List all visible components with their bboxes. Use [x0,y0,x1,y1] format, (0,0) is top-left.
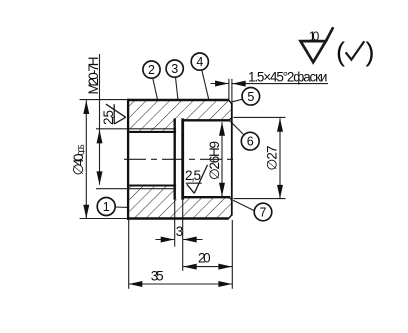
svg-text:4: 4 [196,55,203,69]
svg-text:2,5: 2,5 [101,110,116,125]
svg-text:20: 20 [198,250,211,265]
svg-text:1: 1 [103,200,110,214]
svg-text:M20-7H: M20-7H [86,57,101,95]
svg-text:3: 3 [171,62,178,76]
svg-text:1.5×45°2фаски: 1.5×45°2фаски [248,69,327,84]
svg-text:6: 6 [247,135,254,149]
svg-text:∅27: ∅27 [265,146,280,171]
svg-text:∅26H9: ∅26H9 [207,141,222,180]
svg-text:35: 35 [151,269,164,284]
svg-text:∅40-0,05: ∅40-0,05 [70,144,86,175]
svg-text:2,5: 2,5 [185,168,201,183]
svg-text:10: 10 [309,30,320,44]
svg-text:(: ( [336,37,345,67]
svg-text:2: 2 [148,63,155,77]
svg-text:7: 7 [260,206,267,220]
svg-text:3: 3 [176,224,184,239]
svg-text:5: 5 [247,90,254,104]
svg-text:): ) [366,37,375,67]
